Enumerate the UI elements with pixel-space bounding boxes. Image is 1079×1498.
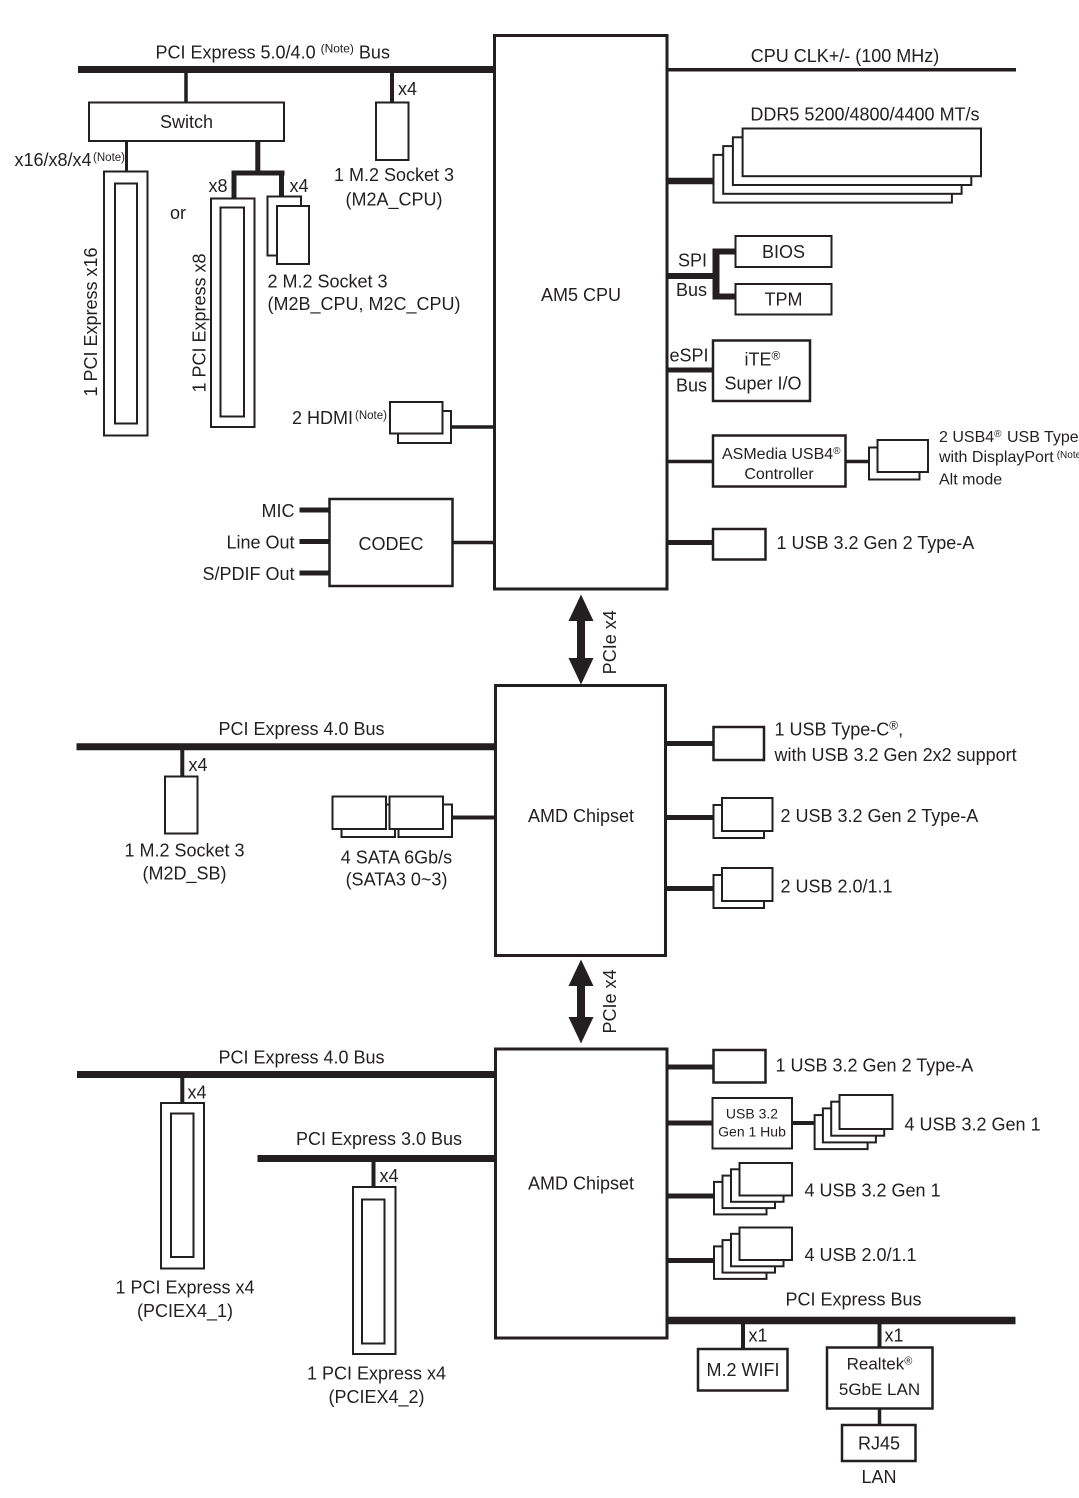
wire bus to M.2 WIFI: [741, 1324, 745, 1350]
svg-text:x4: x4: [380, 1166, 399, 1186]
slot PCIEX4_1 outer: [161, 1103, 204, 1269]
box AM5 CPU: [495, 36, 668, 590]
svg-text:or: or: [170, 203, 186, 223]
svg-text:1 PCI Express x16: 1 PCI Express x16: [81, 247, 101, 396]
USB 2.0 port 2: [731, 1234, 784, 1267]
svg-text:Switch: Switch: [160, 112, 213, 132]
wire Switch to x8/x4 branch trunk: [255, 141, 260, 176]
svg-text:ASMedia USB4®: ASMedia USB4®: [722, 446, 841, 463]
svg-text:AMD Chipset: AMD Chipset: [528, 1174, 634, 1194]
svg-text:4 SATA 6Gb/s: 4 SATA 6Gb/s: [341, 848, 452, 868]
USB4 port back: [869, 448, 920, 480]
wire chipset to 4 USB 3.2 Gen 1: [667, 1194, 714, 1199]
box ASMedia USB4 Controller: [713, 436, 846, 487]
svg-text:1 PCI Express x4: 1 PCI Express x4: [307, 1364, 446, 1384]
wire bus to Realtek LAN: [878, 1324, 882, 1348]
USB 2.0 port 4: [714, 1246, 767, 1279]
wire bus to PCIEX4_1: [180, 1078, 184, 1103]
wire branch to x4 M.2: [279, 171, 284, 197]
wire hub to USB ports: [792, 1121, 815, 1125]
svg-text:1 PCI Express x8: 1 PCI Express x8: [190, 253, 210, 392]
svg-text:x1: x1: [749, 1326, 768, 1346]
svg-text:PCI Express 5.0/4.0 (Note) Bus: PCI Express 5.0/4.0 (Note) Bus: [156, 42, 390, 63]
wire Switch to x16 slot: [125, 141, 128, 172]
bus PCI Express 5.0/4.0 (CPU): [78, 66, 496, 73]
box RJ45: [842, 1425, 916, 1461]
svg-text:PCIe x4: PCIe x4: [600, 969, 620, 1033]
box M.2 WIFI: [698, 1349, 788, 1391]
USB 3.2 Gen 1 port 4: [714, 1182, 767, 1215]
svg-text:Realtek®: Realtek®: [847, 1355, 913, 1374]
wire chipset to USB hub: [667, 1121, 713, 1126]
wire bus to M2D socket: [180, 750, 184, 777]
svg-text:x4: x4: [290, 176, 309, 196]
M.2 socket M2A: [376, 103, 409, 161]
svg-text:PCI Express 4.0 Bus: PCI Express 4.0 Bus: [218, 719, 384, 739]
USB 3.2 Gen 1 port 3: [723, 1176, 776, 1209]
svg-text:(M2B_CPU, M2C_CPU): (M2B_CPU, M2C_CPU): [268, 294, 461, 315]
wire CPU to ASMedia: [667, 460, 713, 464]
svg-text:LAN: LAN: [861, 1467, 896, 1487]
svg-text:BIOS: BIOS: [762, 242, 805, 262]
wire Realtek to RJ45: [878, 1408, 882, 1426]
svg-text:Bus: Bus: [676, 376, 707, 396]
SATA port back-left: [342, 805, 396, 838]
svg-text:x16/x8/x4(Note): x16/x8/x4(Note): [15, 150, 126, 170]
arrow PCIe x4 (CPU to chipset): [569, 595, 594, 685]
svg-text:x8: x8: [209, 176, 228, 196]
M.2 socket M2B/M2C back: [268, 197, 302, 256]
USB 3.2 Gen 2 port back: [714, 805, 765, 838]
DIMM slot 1: [743, 129, 981, 177]
box iTE Super I/O: [713, 341, 810, 402]
wire bus to PCIEX4_2: [372, 1162, 376, 1188]
svg-text:PCIe x4: PCIe x4: [600, 610, 620, 674]
svg-text:2 USB 2.0/1.1: 2 USB 2.0/1.1: [781, 877, 893, 897]
svg-text:(PCIEX4_1): (PCIEX4_1): [137, 1301, 233, 1322]
wire S/PDIF Out: [300, 571, 330, 576]
svg-text:Bus: Bus: [676, 280, 707, 300]
bus PCI Express (bottom right): [667, 1317, 1016, 1325]
svg-text:1 M.2 Socket 3: 1 M.2 Socket 3: [124, 841, 244, 861]
box TPM: [736, 284, 832, 315]
USB Type-C port: [714, 727, 765, 760]
svg-text:5GbE LAN: 5GbE LAN: [839, 1380, 920, 1399]
hub USB port 1: [840, 1095, 893, 1129]
wire branch to x8 slot: [232, 171, 237, 199]
slot PCI Express x8 outer: [211, 199, 255, 428]
box AMD Chipset (bottom): [496, 1049, 668, 1338]
svg-text:AMD Chipset: AMD Chipset: [528, 806, 634, 826]
slot PCIEX4_2 inner: [362, 1200, 385, 1344]
svg-text:x4: x4: [188, 1083, 207, 1103]
wire chipset to USB Type-C: [666, 741, 714, 746]
box BIOS: [736, 236, 832, 267]
svg-text:PCI Express 3.0 Bus: PCI Express 3.0 Bus: [296, 1129, 462, 1149]
svg-text:S/PDIF Out: S/PDIF Out: [202, 564, 294, 584]
wire CPU to USB 3.2 Gen 2 port: [667, 540, 713, 545]
svg-text:2 USB 3.2 Gen 2 Type-A: 2 USB 3.2 Gen 2 Type-A: [781, 806, 979, 826]
hub USB port 2: [831, 1102, 884, 1136]
svg-text:1 M.2 Socket 3: 1 M.2 Socket 3: [334, 165, 454, 185]
slot PCIEX4_2 outer: [353, 1187, 396, 1354]
wire HDMI to CPU: [451, 425, 496, 429]
wire SPI to BIOS: [713, 249, 737, 255]
wire SPI vertical: [713, 249, 720, 300]
wire SPI to TPM: [713, 294, 737, 300]
svg-text:DDR5 5200/4800/4400 MT/s: DDR5 5200/4800/4400 MT/s: [750, 105, 979, 125]
USB 2.0 port front: [722, 868, 773, 901]
USB 2.0 port 3: [723, 1240, 776, 1273]
bus PCI Express 4.0 (bottom): [77, 1071, 497, 1078]
svg-text:eSPI: eSPI: [670, 346, 709, 366]
svg-text:1 USB 3.2 Gen 2 Type-A: 1 USB 3.2 Gen 2 Type-A: [776, 1056, 974, 1076]
svg-text:Super I/O: Super I/O: [725, 374, 802, 394]
USB 2.0 port 1: [740, 1228, 793, 1261]
slot PCI Express x8 inner: [221, 208, 245, 417]
svg-text:CPU CLK+/- (100 MHz): CPU CLK+/- (100 MHz): [751, 46, 940, 66]
wire chipset to 2 USB 2.0: [666, 886, 714, 891]
box Realtek 5GbE LAN: [827, 1348, 933, 1409]
svg-text:RJ45: RJ45: [858, 1434, 900, 1454]
svg-text:1 USB 3.2 Gen 2 Type-A: 1 USB 3.2 Gen 2 Type-A: [777, 533, 975, 553]
slot PCI Express x16 outer: [104, 172, 148, 436]
hub USB port 4: [815, 1115, 868, 1149]
svg-text:x4: x4: [189, 755, 208, 775]
M.2 socket M2D: [165, 777, 198, 834]
wire chipset to 4 USB 2.0: [667, 1258, 714, 1263]
DIMM slot 2: [733, 137, 971, 185]
svg-text:(M2A_CPU): (M2A_CPU): [345, 190, 442, 211]
svg-text:SPI: SPI: [678, 251, 707, 271]
svg-text:USB 3.2: USB 3.2: [726, 1106, 778, 1122]
USB 3.2 Gen 1 port 2: [731, 1169, 784, 1202]
svg-text:PCI Express 4.0 Bus: PCI Express 4.0 Bus: [218, 1048, 384, 1068]
svg-text:MIC: MIC: [262, 501, 295, 521]
DIMM slot 4: [714, 155, 952, 203]
svg-text:(M2D_SB): (M2D_SB): [142, 864, 226, 885]
SATA port back-right: [399, 805, 453, 838]
svg-text:2 HDMI(Note): 2 HDMI(Note): [292, 408, 387, 428]
svg-text:x1: x1: [885, 1326, 904, 1346]
wire Line Out: [300, 539, 330, 544]
wire eSPI: [667, 368, 713, 373]
svg-text:PCI Express Bus: PCI Express Bus: [785, 1290, 921, 1310]
USB 3.2 Gen 2 Type-A port (CPU): [713, 529, 766, 560]
USB 3.2 Gen 2 Type-A port (bottom): [714, 1050, 766, 1083]
box CODEC: [330, 499, 453, 586]
svg-text:1 USB Type-C®,: 1 USB Type-C®,: [775, 719, 904, 740]
wire chipset to USB 3.2 Gen 2 Type-A (bottom): [667, 1065, 714, 1070]
SATA port front-right: [390, 797, 444, 830]
svg-text:Line Out: Line Out: [226, 533, 294, 553]
svg-text:with DisplayPort(Note): with DisplayPort(Note): [938, 449, 1079, 466]
SATA port front-left: [333, 797, 387, 830]
svg-text:Alt mode: Alt mode: [939, 472, 1002, 489]
HDMI port back: [398, 411, 451, 443]
wire bus to Switch: [184, 73, 188, 103]
slot PCIEX4_1 inner: [171, 1114, 194, 1258]
wire ASMedia to USB4 ports: [846, 460, 870, 464]
svg-text:AM5 CPU: AM5 CPU: [541, 285, 621, 305]
wire branch T-bar: [232, 171, 285, 176]
wire CPU to DDR: [667, 178, 714, 185]
bus PCI Express 3.0: [258, 1155, 498, 1162]
svg-text:with USB 3.2 Gen 2x2 support: with USB 3.2 Gen 2x2 support: [774, 745, 1017, 765]
wire SPI trunk: [667, 273, 720, 279]
svg-text:4 USB 3.2 Gen 1: 4 USB 3.2 Gen 1: [905, 1115, 1041, 1135]
svg-text:(PCIEX4_2): (PCIEX4_2): [328, 1387, 424, 1408]
svg-text:(SATA3 0~3): (SATA3 0~3): [346, 870, 448, 890]
svg-text:2 USB4® USB Type-C: 2 USB4® USB Type-C: [939, 429, 1079, 446]
svg-text:Controller: Controller: [744, 466, 814, 483]
wire bus to M2A socket: [390, 73, 394, 103]
hub USB port 3: [823, 1108, 876, 1142]
svg-text:4 USB 3.2 Gen 1: 4 USB 3.2 Gen 1: [805, 1181, 941, 1201]
USB 3.2 Gen 2 port front: [722, 798, 773, 831]
USB 3.2 Gen 1 port 1: [740, 1163, 793, 1196]
wire MIC: [300, 508, 330, 513]
box Switch: [89, 103, 284, 142]
DIMM slot 3: [723, 146, 961, 194]
box AMD Chipset (middle): [496, 686, 666, 956]
HDMI port front: [390, 402, 443, 434]
svg-text:TPM: TPM: [765, 290, 803, 310]
USB 2.0 port back: [714, 875, 765, 908]
USB4 port front: [878, 440, 929, 472]
wire CODEC to CPU: [453, 541, 497, 545]
slot PCI Express x16 inner: [115, 184, 137, 424]
svg-text:M.2 WIFI: M.2 WIFI: [707, 1360, 780, 1380]
wire CPU CLK: [667, 68, 1016, 72]
svg-text:4 USB 2.0/1.1: 4 USB 2.0/1.1: [805, 1245, 917, 1265]
svg-text:Gen 1 Hub: Gen 1 Hub: [718, 1124, 786, 1140]
svg-text:1 PCI Express x4: 1 PCI Express x4: [115, 1278, 254, 1298]
wire chipset to 2 USB 3.2 Gen 2: [666, 815, 714, 820]
M.2 socket M2B/M2C front: [277, 206, 309, 264]
box USB 3.2 Gen 1 Hub: [713, 1098, 793, 1149]
arrow PCIe x4 (chipset to chipset): [569, 960, 594, 1044]
svg-text:CODEC: CODEC: [358, 534, 423, 554]
svg-text:2 M.2 Socket 3: 2 M.2 Socket 3: [268, 272, 388, 292]
wire SATA to chipset: [452, 816, 498, 820]
svg-text:x4: x4: [398, 79, 417, 99]
bus PCI Express 4.0 (middle): [77, 743, 498, 750]
